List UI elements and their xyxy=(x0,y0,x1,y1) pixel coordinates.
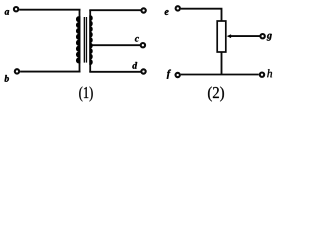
node d xyxy=(141,69,145,73)
resistor RP body xyxy=(217,21,226,52)
wire e to potentiometer top xyxy=(181,9,222,21)
wire secondary center tap to c xyxy=(91,44,140,46)
node a xyxy=(14,7,18,11)
node f xyxy=(176,73,180,77)
wire potentiometer bottom lead xyxy=(221,52,223,75)
wire wiper to g xyxy=(230,35,260,37)
wire primary spine vertical xyxy=(79,10,81,72)
node g xyxy=(260,34,264,38)
label h xyxy=(267,69,272,77)
node secondary top terminal xyxy=(141,8,145,12)
label (1) xyxy=(79,86,92,101)
core line left xyxy=(83,17,85,63)
winding L1 primary scalloped band xyxy=(76,16,80,63)
label e xyxy=(165,10,169,15)
label d xyxy=(132,62,137,69)
node h xyxy=(260,73,264,77)
wiper arrow head xyxy=(227,34,231,38)
core line right xyxy=(85,17,87,63)
label (2) xyxy=(208,86,224,101)
wire b to primary bottom xyxy=(20,71,80,73)
node c xyxy=(141,43,145,47)
wire secondary spine vertical xyxy=(89,10,91,72)
label g xyxy=(267,34,272,41)
wire secondary top xyxy=(89,9,141,11)
wire a to primary top xyxy=(19,9,80,11)
label f xyxy=(167,70,171,79)
winding L2 secondary scalloped band xyxy=(89,15,92,65)
node e xyxy=(176,6,180,10)
label b xyxy=(5,75,9,82)
node b xyxy=(15,69,19,73)
label c xyxy=(135,37,139,42)
wire f to h xyxy=(181,74,259,76)
label a xyxy=(5,10,9,15)
wire secondary bottom to d xyxy=(89,71,141,73)
